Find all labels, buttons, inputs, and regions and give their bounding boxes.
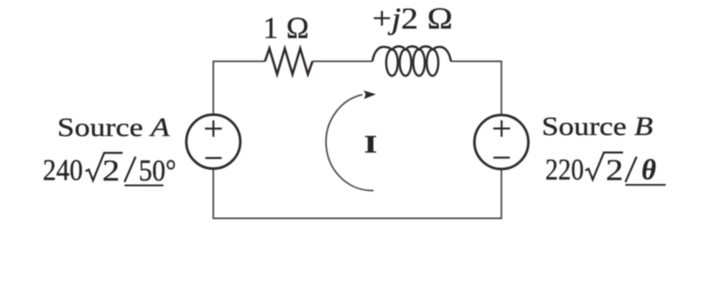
svg-text:+j2 Ω: +j2 Ω <box>372 2 453 36</box>
resistor R 1ohm zigzag <box>265 48 313 74</box>
inductor loop ellipse 2 <box>400 49 412 75</box>
inductor arch 4 <box>419 46 433 50</box>
mesh current arrow arc <box>326 95 374 191</box>
source B plus sign <box>493 120 510 136</box>
svg-text:50°: 50° <box>139 154 176 188</box>
angle underline (A) <box>125 184 164 186</box>
inductor arch 5 with right lead <box>433 47 451 61</box>
inductor arch 1 with left lead <box>372 47 392 61</box>
radical sign sqrt (A) <box>86 153 123 181</box>
radical sign sqrt (B) <box>585 153 623 180</box>
angle underline (B) <box>625 184 665 186</box>
svg-text:2: 2 <box>102 154 120 187</box>
svg-text:Source A: Source A <box>57 113 170 142</box>
inductor arch 3 <box>406 46 420 50</box>
source A circle <box>186 115 240 169</box>
wire bottom loop <box>213 170 501 219</box>
mesh current arrowhead <box>363 90 376 99</box>
source B minus sign <box>493 157 509 159</box>
svg-text:220: 220 <box>545 154 584 188</box>
source A minus sign <box>205 157 221 159</box>
svg-text:240: 240 <box>43 154 83 188</box>
wire top-left + left upper vertical <box>213 61 265 114</box>
inductor loop ellipse 3 <box>413 49 425 75</box>
svg-text:1 Ω: 1 Ω <box>263 11 309 45</box>
svg-text:2: 2 <box>606 154 624 187</box>
svg-text:Source B: Source B <box>542 112 653 142</box>
inductor L +j2ohm : loops <box>372 46 451 75</box>
wire between resistor and inductor <box>313 60 373 62</box>
inductor loop ellipse 4 <box>427 49 439 75</box>
svg-text:θ: θ <box>642 155 657 186</box>
inductor arch 2 <box>392 46 406 50</box>
source A plus sign <box>205 120 222 136</box>
svg-text:I: I <box>364 132 377 159</box>
source B circle <box>474 115 528 169</box>
wire top-right + right upper vertical <box>451 61 502 114</box>
angle slash (B) <box>625 157 636 182</box>
inductor loop ellipse 1 <box>386 49 398 75</box>
angle slash (A) <box>125 157 136 182</box>
